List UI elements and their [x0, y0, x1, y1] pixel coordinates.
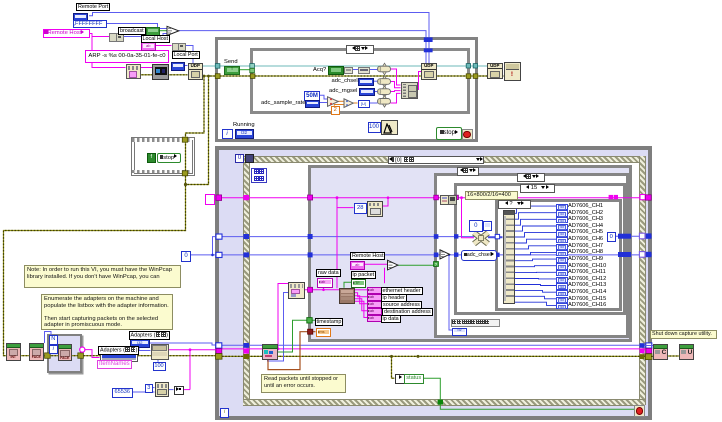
wire rust timestamp [268, 332, 316, 370]
function string subset [288, 282, 305, 299]
terminal Local Port U16 [171, 62, 186, 71]
case structure 3 [454, 183, 626, 315]
junction blue const [211, 254, 214, 257]
indicator ip header abc [367, 294, 382, 301]
label Adapters (<span clas [98, 346, 139, 355]
function multiply [344, 99, 353, 108]
wire sel3 out pink [391, 90, 401, 93]
cast pair 2b [178, 43, 186, 51]
wire udp error into loop [201, 75, 422, 77]
label adc_chsel [332, 78, 358, 84]
wire channel 2 [513, 213, 556, 220]
indicator source address abc [367, 301, 382, 308]
case structure 1 (lavender) [308, 165, 632, 342]
tunnel olive loop4 l [45, 353, 51, 358]
junction pink subset [277, 348, 280, 351]
constant array 0 [469, 220, 484, 233]
wire format to black icon pink [139, 67, 153, 69]
wire u32 to select4 [368, 102, 378, 104]
constant ARP string [85, 50, 169, 63]
label Adapters (<span clas [129, 331, 170, 340]
tunnel blue loop3 r idx [646, 233, 652, 238]
indicator Acq TF [328, 66, 344, 75]
tunnel olive bottom loop3 [216, 354, 222, 360]
wire adapters to prop [139, 346, 151, 350]
tunnel teal loop2 r [473, 64, 477, 68]
junction blue rope idx [243, 234, 249, 239]
indicator AD7606_CH4 [556, 224, 568, 230]
tunnel blue case1 cnt [308, 252, 313, 257]
junction olive rope bottom [243, 354, 249, 359]
wire adc_rngsel to select3 [373, 91, 378, 93]
timed sequence rope border top [243, 156, 645, 163]
indicator AD7606_CH7 [556, 244, 568, 250]
function pcap next packet [262, 344, 278, 360]
wire const2 to mult [334, 105, 344, 106]
indicator Running [235, 129, 254, 139]
junction blue rope cnt [243, 252, 249, 257]
small while loop (adapters) [47, 334, 82, 373]
note shut down [650, 330, 717, 339]
wire sel2 out pink [391, 82, 401, 88]
indicator adc_rngsel [359, 88, 376, 96]
wire cmp2 down [449, 255, 452, 330]
wire const0 to tunnels [189, 237, 222, 255]
tunnel blue cnt loop3 [216, 252, 222, 257]
cast pair 2a [172, 43, 180, 51]
wire olive stub to C icon [651, 355, 654, 357]
terminal N loop4 [49, 335, 59, 345]
wire channel 11 [513, 271, 556, 273]
junction olive rope br [640, 354, 645, 359]
wire ffffffff to select [107, 24, 167, 29]
function UDP close [487, 63, 503, 80]
wire rawdata drop [323, 286, 325, 290]
junction pink branch [460, 196, 463, 199]
wire green pcap flag [276, 320, 315, 352]
wire channel 12 [513, 278, 556, 280]
constant 100 b [153, 362, 166, 371]
tunnel green case t [250, 68, 255, 72]
wire stop to cond [460, 132, 462, 134]
timed loop input node [235, 154, 244, 163]
tunnel olive seq top [182, 137, 187, 142]
function bundle [401, 82, 418, 98]
constant empty string [205, 194, 215, 205]
wire sel4 out pink [391, 93, 401, 103]
function parse packet unbundle [339, 288, 355, 304]
control Remote Host abc 2 [350, 261, 365, 270]
junction error 204 [203, 75, 206, 78]
timed sequence rope border right [639, 156, 646, 405]
label ip packet [351, 271, 377, 279]
label broadcast [118, 27, 146, 35]
junction magenta rope br [640, 349, 645, 354]
wire pink main packet [212, 197, 645, 199]
junction error 185 [184, 183, 187, 186]
wire cmp green out [398, 264, 434, 266]
indicator AD7606_CH13 [556, 283, 568, 289]
property node ItemNames [151, 344, 170, 361]
control Remote Host [43, 29, 90, 39]
function to ref arrow [174, 386, 184, 395]
while loop (top acquisition loop) [215, 37, 478, 142]
local variable stop [436, 127, 462, 140]
wire unbundle out 3 [353, 296, 367, 304]
label Acq? [313, 67, 326, 73]
wire channel 9 [513, 259, 556, 261]
wire channel 7 [513, 246, 556, 249]
indicator AD7606_CH10 [556, 263, 568, 269]
tunnel olive loop2 [215, 74, 220, 79]
wire reshape out [488, 237, 503, 239]
function equal [388, 260, 398, 270]
wire sel1 out pink [391, 69, 401, 85]
label 16x800 [465, 191, 518, 200]
label packet count [451, 319, 500, 328]
constant 3 [145, 384, 154, 394]
timed sequence inner white area [249, 162, 640, 400]
indicator destination address abc [367, 308, 382, 315]
constant 2 orange [331, 106, 341, 115]
tunnel olive case t [250, 74, 255, 79]
function simple error handler [504, 62, 521, 82]
tunnel olive loop3 br [645, 354, 652, 360]
tunnel magenta loop3 br [646, 348, 652, 353]
wire pink to 28 icon [337, 207, 354, 209]
label Running [233, 122, 255, 128]
terminal i loop4 [49, 345, 59, 355]
indicator AD7606_CH11 [556, 270, 568, 276]
wire channel 16 [513, 302, 556, 305]
label ip header [381, 294, 407, 302]
wire adapters listbox blue [148, 343, 222, 345]
wire 100 to metronome [379, 126, 382, 128]
function acq box2 [358, 67, 370, 75]
tunnel green case1 [307, 318, 312, 323]
label ethernet header [381, 287, 423, 295]
indicator ethernet header abc [367, 287, 382, 294]
function index array tall [503, 210, 516, 305]
wire remote host cmp [362, 263, 388, 265]
label Remote Port [76, 3, 110, 11]
wire black icon error out [167, 74, 188, 76]
wire channel 10 [513, 266, 556, 267]
tunnel blue loop3 br [646, 343, 652, 348]
indicator AD7606_CH2 [556, 210, 568, 216]
indicator Adapters listbox ref [130, 339, 151, 349]
constant 0 blue [181, 251, 191, 262]
junction magenta rope bottom [243, 349, 249, 354]
cast pair 1b [116, 33, 124, 42]
wire channel 14 [513, 290, 556, 292]
wire status green [422, 378, 441, 399]
tunnel rust case1 [308, 329, 313, 334]
wire pink branch to reshape [462, 198, 475, 238]
wire blue main index [222, 236, 503, 238]
wire remote host right [89, 34, 109, 37]
indicator ip data abc [367, 315, 382, 322]
case structure 4 [495, 199, 622, 311]
function string to ip [152, 64, 169, 80]
label raw data [316, 269, 341, 277]
indicator AD7606_CH15 [556, 297, 568, 303]
junction blue rope bottom [243, 343, 249, 348]
control adc_sample_rate [305, 100, 321, 108]
constant array b [483, 221, 493, 232]
case selector top loop [346, 45, 374, 54]
function comparator [440, 250, 450, 259]
wire error branch x204 via sequence [4, 76, 217, 356]
function to u32 [358, 100, 370, 108]
terminal i loop3 [220, 408, 230, 418]
function pcap setfilter [367, 201, 383, 217]
wire local port to udp open [183, 65, 188, 67]
timed sequence rope border left [243, 156, 250, 405]
terminal Remote Port U16 [73, 13, 88, 22]
constant broadcast TF [146, 27, 161, 35]
junction 28 out [387, 196, 390, 199]
timed sequence rope border bottom [243, 399, 645, 406]
wire channel 8 [513, 252, 556, 254]
indicator raw data abc [317, 278, 333, 288]
tunnel blue right cnt [618, 252, 631, 257]
case selector 1 [457, 167, 479, 176]
wire teal to udp close [435, 65, 488, 67]
wire olive main bottom [222, 355, 649, 357]
junction olive main [417, 355, 420, 358]
wire remote port to udp write [89, 13, 429, 64]
wire acq chain [342, 69, 378, 71]
select marks [168, 29, 172, 33]
junction cmp2 [448, 254, 450, 256]
wire channel 13 [513, 285, 556, 286]
local variable f stop icon [147, 153, 157, 163]
tunnel olive case r [466, 74, 471, 79]
wire blue main bottom [222, 344, 646, 346]
tunnel blue pair case top [424, 48, 433, 52]
wire udp conn id teal [201, 65, 422, 67]
wire blue main count [222, 254, 640, 256]
wire icon to arrow [167, 389, 174, 391]
indicator AD7606_CH16 [556, 303, 568, 309]
timed frame header [388, 156, 484, 165]
constant FFFFFFFF [73, 20, 107, 29]
tunnel blue case2 idx [434, 234, 439, 239]
indicator I32 packet count [452, 328, 467, 336]
loop stop sign bottom right [634, 405, 645, 416]
junction olive status [390, 355, 393, 358]
constant 50M [304, 91, 320, 101]
wire green to stop sign [440, 404, 634, 409]
wire loop4 N feed [45, 332, 52, 344]
wire unbundle out 4 [353, 299, 367, 311]
local variable adc_chsel [461, 250, 497, 260]
constant 0 right [607, 232, 617, 242]
label ip data [381, 315, 401, 323]
label Local Port [172, 51, 200, 59]
tunnel violet rope idx [639, 233, 645, 239]
label Remote Host [350, 252, 385, 260]
wire channel 3 [513, 219, 556, 225]
wire pink riser to subset [278, 284, 288, 349]
function select (broadcast) [167, 26, 179, 35]
wire loop4 pink out [85, 350, 100, 358]
cast pair 1a [109, 33, 117, 42]
tunnel teal loop2 [215, 64, 220, 69]
wire olive drop to status [392, 356, 395, 378]
case selector 2 true [517, 173, 545, 182]
tunnel pink loop4 [80, 347, 86, 353]
wire const0r right [614, 235, 652, 237]
function decimate b [448, 195, 457, 205]
function divide [328, 97, 339, 107]
wire cast2 to udp open [184, 46, 194, 64]
label source address [381, 301, 422, 309]
wire blue stub to C icon [646, 345, 655, 347]
function format into string [126, 64, 141, 80]
tunnel blue case1 idx [308, 234, 313, 239]
wire error branch x208 [186, 76, 209, 185]
label adc_rngsel [329, 88, 357, 94]
tunnel green case2 sel [434, 262, 439, 267]
timed sequence lavender band [219, 150, 648, 416]
tunnel olive loop4 r [78, 353, 84, 358]
tunnel blue bottom loop3 [216, 343, 222, 348]
indicator AD7606_CH9 [556, 257, 568, 263]
note box enumerate [41, 294, 173, 330]
wire channel 15 [513, 296, 556, 299]
label timestamp [315, 318, 344, 326]
indicator AD7606_CH1 [556, 204, 568, 210]
wire itemnames riser pink [189, 350, 191, 390]
function select spindle 3 [383, 86, 387, 98]
wire blue under pcap [268, 345, 284, 361]
wire arrow to riser [182, 389, 190, 391]
wire channel 5 [513, 233, 556, 237]
subvi pcap init [6, 343, 21, 361]
function decimate a [440, 195, 449, 205]
control Local Host abc [141, 42, 157, 51]
function acq box1 [344, 67, 354, 75]
tunnel magenta case3 [454, 195, 458, 199]
tunnel magenta loop3 [216, 195, 222, 201]
tunnel blue right idx [618, 234, 631, 239]
wire 100 to prop [157, 358, 159, 361]
junction green rope bottom [438, 400, 443, 405]
constant 100 [368, 122, 381, 133]
constant Send TF [224, 66, 240, 75]
while loop (big capture loop) [215, 146, 652, 420]
subvi pcap findalldevs [29, 343, 44, 361]
wire blue riser to subset [284, 293, 289, 346]
tunnel blue loop3 r cnt [646, 252, 652, 257]
tunnel blue pair loop2 top [424, 37, 433, 42]
indicator AD7606_CH12 [556, 277, 568, 283]
terminal i loop2 [222, 129, 233, 139]
wire unbundle out 1 [353, 289, 367, 291]
wire unbundle out 5 [353, 301, 367, 317]
tunnel olive seq bottom [182, 171, 187, 176]
function select spindle 4 [383, 96, 387, 108]
wire sample rate to divide [318, 102, 328, 104]
tunnel blue case2 cnt [434, 253, 439, 258]
tunnel violet rope cnt [639, 252, 645, 258]
wire select out to udp write [179, 31, 427, 63]
junction rawdata [322, 289, 325, 292]
junction magenta right a [609, 195, 613, 199]
control Adapters listbox [100, 354, 138, 362]
indicator timestamp DBL [316, 328, 332, 338]
wire adc_chsel to select2 [372, 80, 378, 82]
indicator AD7606_CH5 [556, 230, 568, 236]
indicator AD7606_CH14 [556, 290, 568, 296]
wire prop node pink out [167, 349, 222, 351]
wire format error out [139, 74, 153, 76]
label Send [224, 59, 238, 65]
tunnel magenta case1 [308, 195, 313, 200]
subvi pcap freedevs U [679, 344, 694, 361]
wire subset out pink [303, 289, 339, 291]
wire cmp input2 [384, 268, 386, 283]
wire 28 icon out [381, 198, 388, 206]
wire 3 to icon [151, 387, 155, 389]
tunnel magenta case2 [434, 195, 439, 200]
function open capture [155, 382, 170, 397]
label destination address [382, 308, 433, 316]
case structure (top, Send case) [250, 48, 470, 114]
junction pink main [336, 196, 339, 199]
function reshape array [474, 233, 488, 244]
function wait ms metronome [381, 120, 398, 135]
function select spindle 2 [383, 76, 387, 88]
case structure 2 [434, 173, 629, 338]
tunnel blue case3 cnt [454, 253, 458, 257]
label Local Host [141, 35, 170, 43]
wire parse to ip packet [344, 282, 351, 288]
wire 65536 to icon [131, 391, 155, 393]
wire olive C to U [666, 355, 679, 357]
function UDP write [421, 63, 437, 80]
indicator AD7606_CH8 [556, 250, 568, 256]
indicator AD7606_CH6 [556, 237, 568, 243]
flat sequence structure [131, 137, 195, 176]
local variable stop 2 [157, 153, 181, 164]
junction pink riser [189, 348, 192, 351]
tunnel blue case4 cnt [495, 253, 499, 257]
wire unbundle out 2 [353, 293, 367, 297]
tunnel blue idx loop3 [216, 234, 222, 239]
wire pink main bottom [222, 348, 646, 350]
function UDP open [188, 63, 204, 80]
wire bundle to udp write [416, 72, 422, 90]
indicator adc_chsel [358, 78, 374, 86]
label frame time chinese [251, 168, 267, 183]
loop condition stop sign [462, 129, 473, 141]
wire error to handler [435, 75, 504, 77]
tunnel blue case4 idx [495, 234, 499, 238]
tunnel magenta bottom loop3 [216, 349, 222, 354]
wire pink drop to unbundle [336, 198, 338, 289]
tunnel teal case r [466, 64, 470, 68]
wire divide to mult [338, 100, 344, 102]
subvi pcap getname [58, 344, 73, 362]
wire blue count right end [640, 254, 652, 256]
tunnel blue case3 idx [454, 234, 458, 238]
wire channel 4 [513, 226, 556, 231]
function select spindle 1 [383, 63, 387, 75]
wire broadcast tf to select [159, 30, 168, 32]
